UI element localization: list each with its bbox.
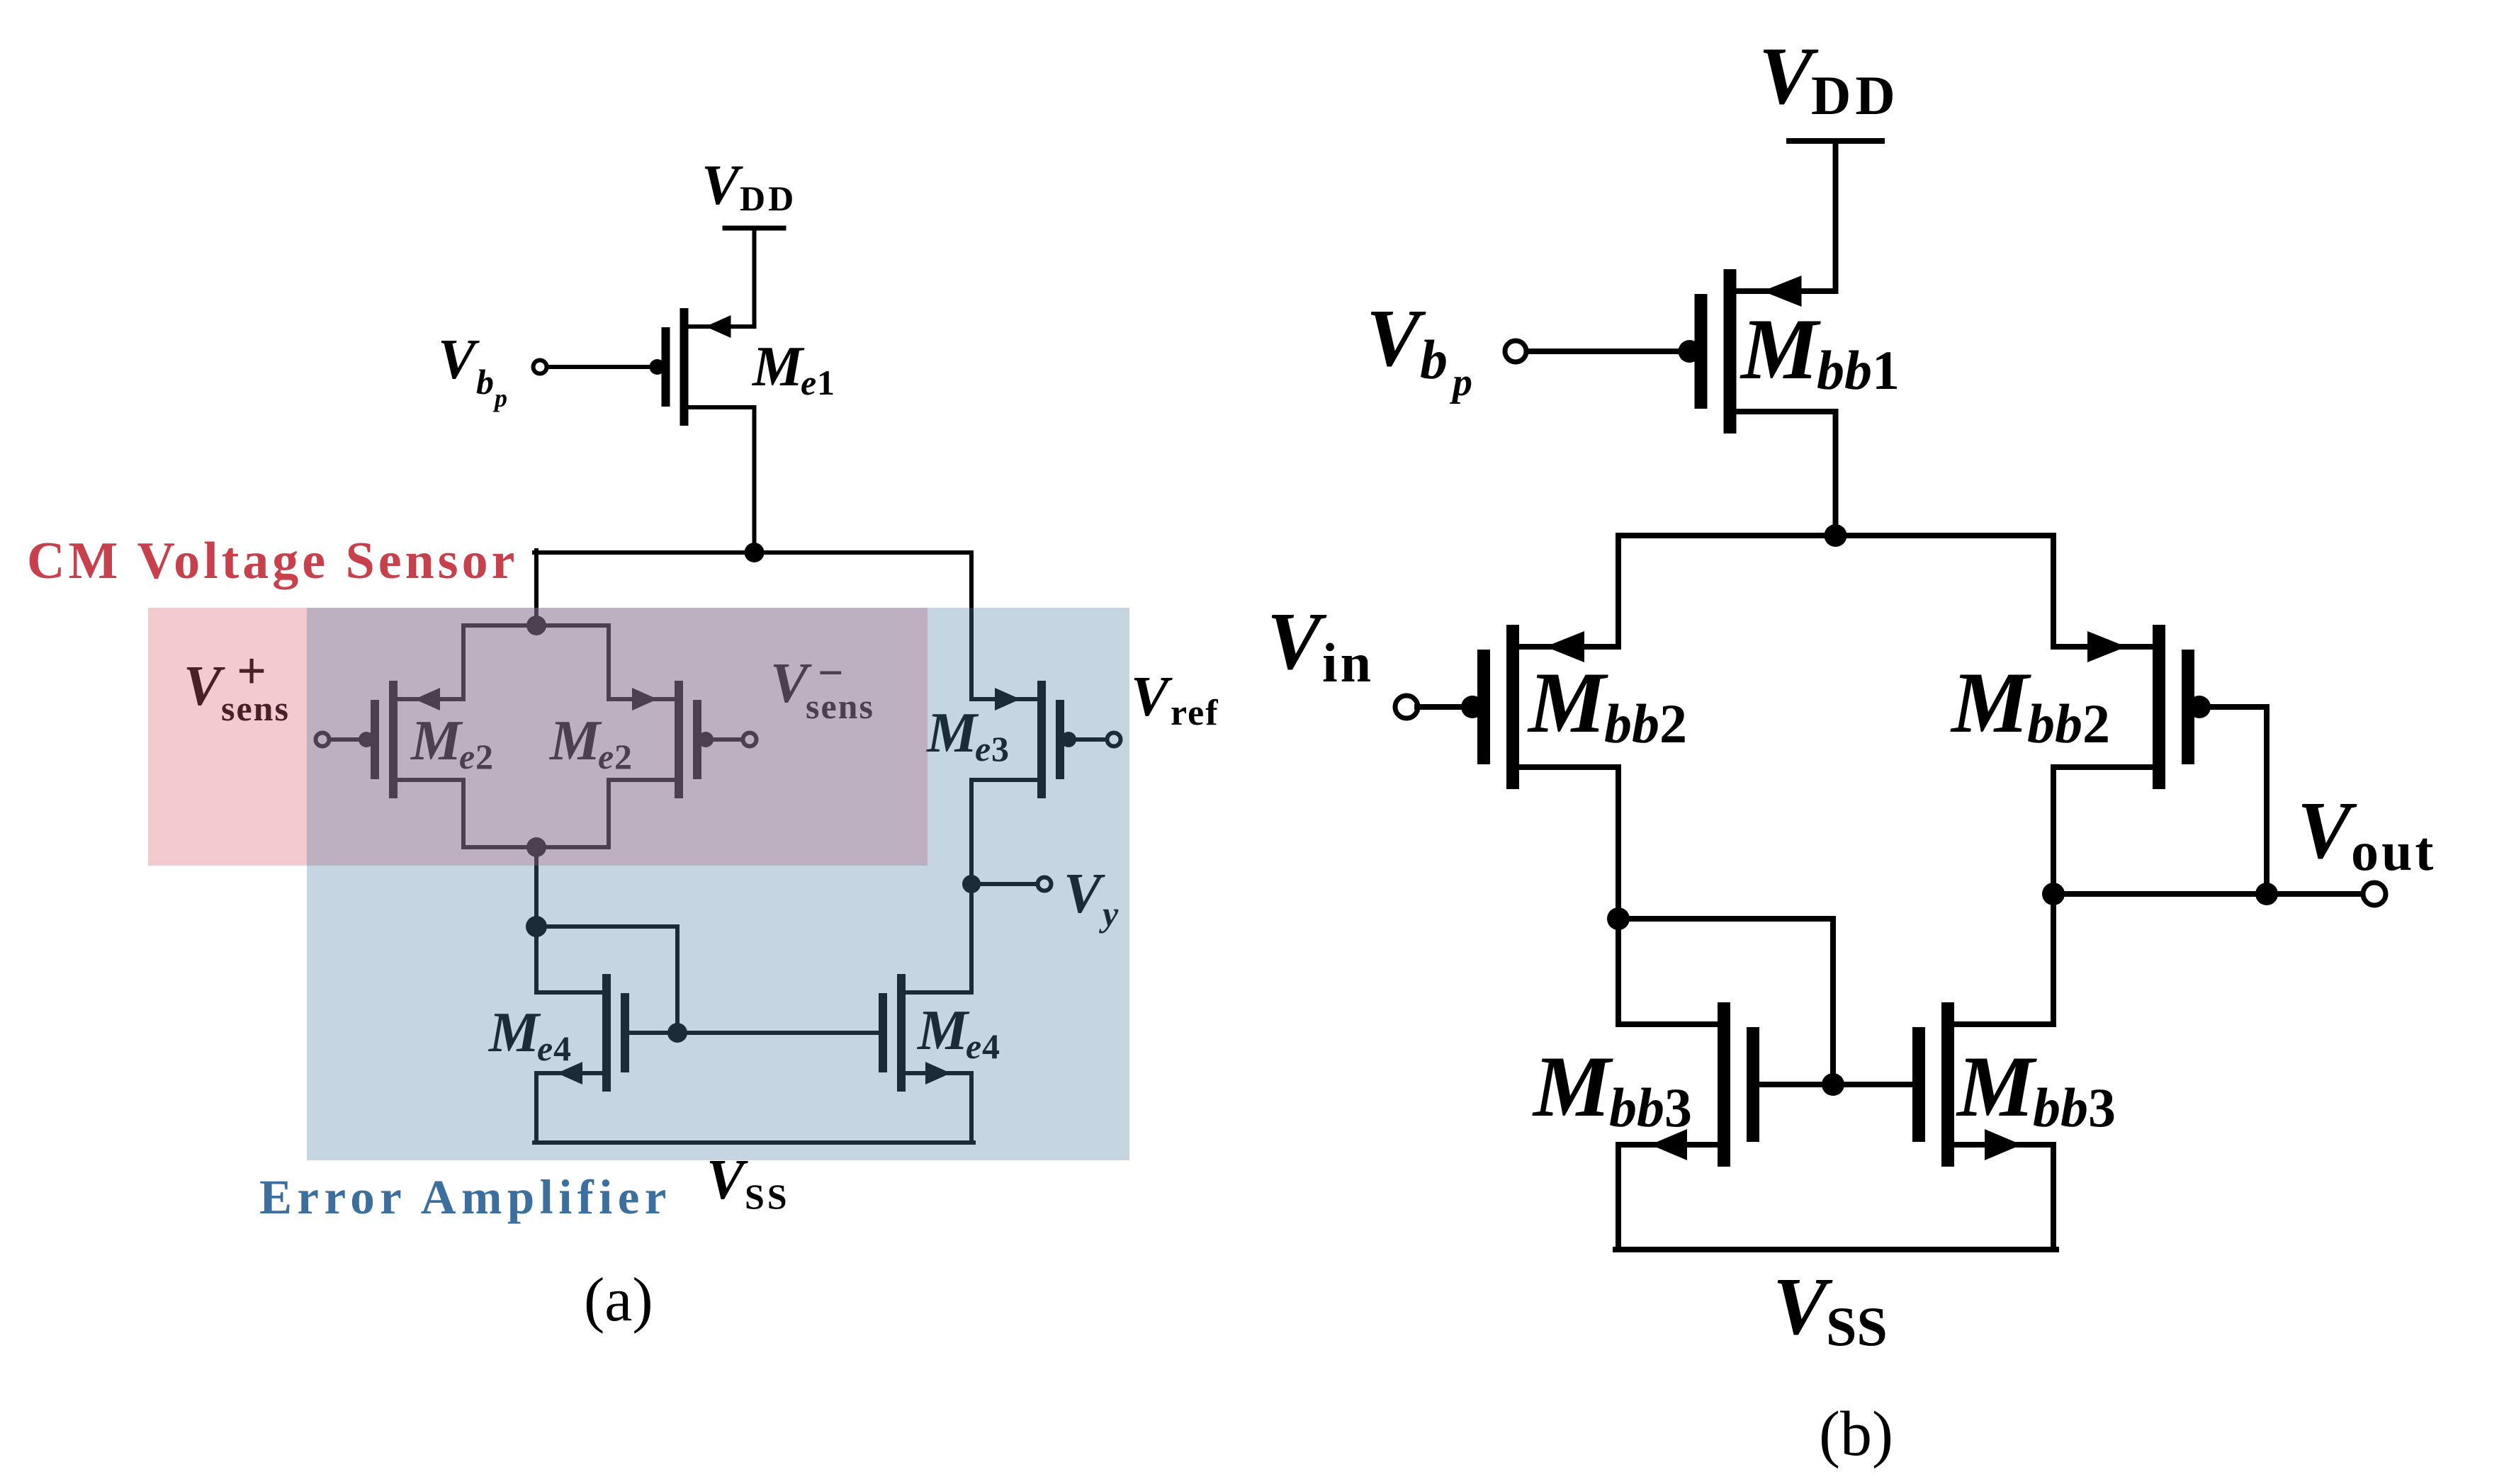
svg-text:M: M [1532,1038,1613,1135]
svg-text:bb: bb [1609,1077,1664,1138]
wire Mbb3L source to VSS rail [1616,1145,1621,1250]
svg-text:DD: DD [1811,64,1900,126]
wire to Me2R source [607,625,611,699]
terminal Vin [1395,696,1418,718]
VDD supply bar (b) [1789,138,1882,144]
svg-text:3: 3 [1664,1077,1692,1138]
svg-text:SS: SS [1826,1296,1888,1357]
node: tail / mirror-gate branch [526,916,547,937]
wire Vbp to Mbb1 gate [1528,349,1689,354]
wire Vsens+ to Me2L gate [330,737,369,742]
node: Mbb1 drain junction [1825,524,1847,547]
transistor Me3 (PMOS) [971,681,1064,798]
svg-text:V: V [2297,786,2357,876]
transistor Mbb3 right (NMOS) [1912,1002,2053,1167]
svg-text:bb: bb [2027,693,2082,754]
gate contact dot Me3 [1061,732,1076,747]
wire branch to mirror gate (b) [1618,916,1833,922]
svg-text:b: b [476,362,494,402]
wire bus to Mbb2L source [1616,536,1621,647]
wire branch drop to gate bus [675,927,680,1033]
overlay: Error Amplifier region (blue) [307,608,1129,1160]
terminal Vsens- [743,733,757,747]
wire Me4 gate bus [629,1031,879,1035]
terminal Vsens+ [316,733,329,747]
wire branch to mirror gate [536,924,677,929]
svg-text:p: p [492,384,507,412]
svg-text:M: M [1740,300,1821,397]
svg-text:out: out [2351,820,2436,882]
transistor Mbb2 left (PMOS) [1477,625,1618,789]
svg-text:DD: DD [740,179,796,218]
wire Mbb3R source to VSS rail [2051,1145,2056,1250]
svg-text:M: M [751,336,805,398]
wire Me2R drain down [607,780,611,847]
node: Me1 drain / top bus junction [745,543,765,562]
transistor Mbb2 right (PMOS) [2053,625,2194,789]
wire Me2L drain down [461,780,466,847]
wire Mbb2R drain to Mbb3R drain [2051,767,2056,1024]
svg-text:1: 1 [817,363,835,402]
svg-text:V: V [1759,31,1819,121]
wire Me1 drain down [752,407,757,553]
transistor Me4 right (NMOS) [879,974,971,1092]
svg-text:in: in [1322,632,1374,693]
transistor Me1 (PMOS) [662,308,755,426]
gate contact dot Mbb1 [1679,340,1701,363]
wire Mbb2L drain to Mbb3L drain [1616,767,1621,1024]
terminal Vout [2363,883,2386,905]
svg-text:3: 3 [2088,1077,2116,1138]
svg-text:V: V [1267,596,1327,686]
wire branch drop to Mbb3 gate bus [1830,919,1836,1084]
wire output bus [2053,891,2362,897]
node: gate feedback on output bus [2255,883,2278,905]
wire VSS rail (a) [534,1140,974,1145]
gate contact dot Me2 right [698,732,714,747]
transistor Me2 right (PMOS) [609,681,701,798]
svg-text:ref: ref [1171,693,1219,733]
gate contact dot Mbb2 left [1461,696,1484,718]
gate contact dot Me1 [650,359,665,375]
VDD supply bar (a) [725,226,784,231]
svg-text:V: V [1131,666,1173,728]
node: output bus left junction [2042,883,2065,905]
svg-text:V: V [1366,293,1426,383]
svg-text:(a): (a) [584,1266,653,1335]
wire Me2 common-source bus [463,623,609,628]
terminal Vref [1107,733,1121,747]
svg-text:bb: bb [2033,1077,2088,1138]
svg-text:M: M [1950,654,2031,751]
node: Mbb3 gate bus junction [1822,1073,1844,1096]
svg-text:2: 2 [2082,693,2110,754]
wire top bus [534,550,971,555]
wire bus to Mbb2R source [2051,536,2056,647]
wire Mbb3 gate bus [1759,1082,1914,1087]
wire top bus to Me3 source [969,553,974,699]
svg-text:p: p [1450,361,1472,404]
svg-text:V: V [438,329,480,391]
transistor Mbb3 left (NMOS) [1618,1002,1759,1167]
wire Mbb1 drain down [1833,412,1839,536]
wire bus left drop [534,550,539,625]
terminal Vbp (b) [1505,341,1526,362]
transistor Mbb1 (PMOS) [1695,269,1836,434]
wire tail down to Me4L drain [534,847,539,992]
wire Me2 drain bus [463,845,609,849]
svg-text:b: b [1420,329,1448,390]
svg-text:M: M [1956,1038,2037,1135]
svg-text:(b): (b) [1819,1399,1893,1469]
wire to Me2L source [461,625,466,699]
wire Me3 drain to Me4R drain [969,780,974,992]
terminal Vy [1038,878,1051,891]
node: left drain / mirror branch [1607,907,1630,930]
gate contact dot Mbb2 right [2188,696,2211,718]
svg-text:2: 2 [1659,693,1687,754]
svg-text:Error Amplifier: Error Amplifier [259,1170,672,1224]
transistor Me2 left (PMOS) [371,681,463,798]
node Vy [962,875,981,893]
gate contact dot Me2 left [359,732,374,747]
svg-text:M: M [1527,654,1608,751]
wire VDD to Me1 source [752,228,757,327]
wire Me4R source to VSS rail [969,1073,974,1143]
wire gate feedback drop to output bus [2264,707,2270,894]
svg-text:V: V [701,154,743,217]
wire Vbp to Me1 gate [547,365,658,369]
wire VDD to Mbb1 source [1833,141,1839,291]
wire Vin to Mbb2L gate [1417,704,1472,710]
node: Me4 gate bus junction [667,1023,687,1043]
wire Me3 gate to Vref [1066,737,1105,742]
svg-text:bb: bb [1604,693,1659,754]
wire to Vy terminal [971,882,1036,886]
terminal Vbp (a) [534,361,547,374]
wire VSS rail (b) [1616,1247,2056,1252]
svg-text:V: V [1773,1262,1833,1352]
svg-text:CM Voltage Sensor: CM Voltage Sensor [27,532,518,590]
svg-text:1: 1 [1872,339,1900,401]
wire Me4L source to VSS rail [534,1073,539,1143]
wire Mbb2R gate feedback [2199,704,2267,710]
node: Me2 drain bus junction [526,837,546,857]
wire Me2R gate to Vsens- [703,737,742,742]
svg-text:e: e [801,363,816,402]
transistor Me4 left (NMOS) [536,974,629,1092]
svg-text:bb: bb [1817,339,1872,401]
svg-text:SS: SS [745,1177,790,1216]
wire common-source bus (b) [1618,533,2053,538]
overlay: CM Voltage Sensor region (pink) [148,608,928,866]
node: Me2 source bus junction [526,616,546,635]
